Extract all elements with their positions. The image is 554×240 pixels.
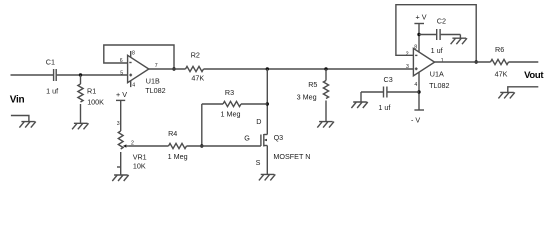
- svg-text:2: 2: [406, 51, 409, 57]
- svg-text:C3: C3: [384, 75, 393, 84]
- node junction R3 right end: [266, 102, 269, 105]
- svg-text:U1B: U1B: [146, 77, 160, 86]
- pin 4 stub U1B: [131, 81, 136, 89]
- node junction C2 tap: [417, 33, 420, 36]
- svg-text:Vout: Vout: [524, 70, 544, 81]
- wire U1A feedback loop: [396, 5, 476, 62]
- node junction R5 branch: [324, 67, 327, 70]
- node junction R1 tap: [79, 73, 82, 76]
- transistor Q3 MOSFET N: [244, 117, 310, 167]
- pin 5 label: [120, 70, 123, 76]
- svg-text:8: 8: [414, 44, 417, 50]
- svg-text:MOSFET N: MOSFET N: [273, 152, 310, 161]
- svg-text:3 Meg: 3 Meg: [297, 92, 317, 101]
- port Vout: [524, 70, 544, 81]
- wire R3 left vertical: [201, 104, 203, 146]
- port Vin: [10, 95, 25, 106]
- svg-text:R2: R2: [191, 51, 200, 60]
- resistor R1 100K: [78, 84, 104, 107]
- power -V U1A: [411, 72, 424, 124]
- svg-text:VR1: VR1: [133, 152, 147, 161]
- svg-text:Q3: Q3: [274, 133, 284, 142]
- svg-text:C1: C1: [46, 57, 55, 66]
- pin 6 label: [120, 58, 123, 64]
- capacitor C2: [419, 17, 460, 55]
- resistor R5 3 Meg: [297, 69, 329, 122]
- svg-text:S: S: [256, 158, 261, 167]
- wire input left segment: [11, 74, 54, 76]
- op-amp U1B: [128, 55, 166, 95]
- svg-text:7: 7: [155, 63, 158, 69]
- svg-text:R4: R4: [168, 129, 177, 138]
- wire VR1 wiper to R4: [129, 145, 169, 147]
- svg-text:TL082: TL082: [429, 81, 449, 90]
- node U1A output junction: [475, 60, 478, 63]
- capacitor C1: [46, 57, 58, 95]
- svg-text:R6: R6: [495, 45, 504, 54]
- svg-text:3: 3: [117, 121, 120, 127]
- svg-text:R1: R1: [87, 87, 96, 96]
- potentiometer VR1 10K: [118, 100, 146, 175]
- svg-text:4: 4: [132, 83, 135, 89]
- pin 4 label: [414, 82, 417, 88]
- svg-text:C2: C2: [437, 17, 446, 26]
- ground under VR1: [112, 175, 128, 181]
- svg-text:Vin: Vin: [10, 95, 25, 106]
- wire R6 to Vout: [509, 61, 539, 63]
- svg-text:1: 1: [441, 58, 444, 64]
- ground under R5: [317, 122, 334, 128]
- wire U1A output to R6: [435, 61, 491, 63]
- wire node to Q3 drain: [266, 69, 268, 135]
- wire U1B feedback loop: [104, 45, 174, 69]
- pin 1 label: [441, 58, 444, 64]
- ground at C2: [451, 38, 467, 44]
- svg-text:47K: 47K: [495, 69, 508, 78]
- node junction R4 gate wire: [200, 144, 203, 147]
- svg-text:G: G: [244, 134, 250, 143]
- capacitor C3: [361, 75, 419, 112]
- resistor R6 47K: [491, 45, 509, 78]
- wire R1 top lead: [80, 75, 82, 84]
- svg-text:4: 4: [414, 82, 417, 88]
- svg-text:- V: - V: [411, 115, 420, 124]
- svg-text:1 uf: 1 uf: [378, 103, 390, 112]
- node U1B output junction: [172, 67, 175, 70]
- wire Vout ground reference stub: [508, 87, 539, 93]
- svg-text:D: D: [256, 117, 261, 126]
- node junction drain branch: [266, 67, 269, 70]
- wire R2 to U1A pin3: [204, 68, 414, 70]
- svg-text:+ V: + V: [116, 90, 127, 99]
- op-amp U1A: [413, 48, 449, 90]
- svg-text:1 uf: 1 uf: [46, 86, 58, 95]
- wire ground stub at Vin: [11, 116, 29, 122]
- power +V at VR1: [116, 90, 127, 100]
- ground under R1: [72, 123, 88, 129]
- svg-text:3: 3: [406, 64, 409, 70]
- wire R1 bottom lead: [80, 104, 82, 123]
- pin 3 label: [406, 64, 409, 70]
- svg-text:1 Meg: 1 Meg: [221, 110, 241, 119]
- ground at C3: [351, 102, 367, 108]
- pin 8 label: [414, 44, 417, 50]
- pin 7 label: [155, 63, 158, 69]
- pin 3 label VR1: [117, 121, 120, 127]
- resistor R2 47K: [186, 51, 205, 83]
- ground under Q3: [259, 174, 275, 180]
- svg-text:U1A: U1A: [430, 69, 444, 78]
- svg-text:R5: R5: [308, 80, 317, 89]
- wire Q3 source lead: [266, 146, 268, 175]
- svg-text:8: 8: [132, 51, 135, 57]
- svg-text:5: 5: [120, 70, 123, 76]
- svg-text:R3: R3: [225, 88, 234, 97]
- node junction C3 tap: [417, 90, 420, 93]
- svg-text:1 uf: 1 uf: [431, 46, 443, 55]
- wire C1 to U1B pin5: [57, 74, 128, 76]
- ground at Vin: [19, 122, 35, 128]
- svg-text:+ V: + V: [416, 13, 427, 22]
- svg-text:47K: 47K: [191, 74, 204, 83]
- pin 1 label VR1: [117, 166, 120, 168]
- pin 2 label: [406, 51, 409, 57]
- svg-text:10K: 10K: [133, 162, 146, 171]
- ground at Vout: [498, 92, 514, 98]
- resistor R3 1 Meg: [202, 88, 267, 118]
- pin 2 label VR1: [131, 140, 134, 146]
- power +V U1A: [414, 13, 426, 52]
- wire U1B output to R2: [149, 68, 186, 70]
- resistor R4 1 Meg: [168, 129, 188, 161]
- pin 8 stub U1B: [131, 51, 135, 58]
- wire R4 to Q3 gate: [187, 145, 261, 147]
- svg-text:100K: 100K: [87, 98, 104, 107]
- wire C2 ground drop: [459, 35, 461, 39]
- wire C3 ground drop: [360, 92, 362, 102]
- svg-text:TL082: TL082: [145, 86, 165, 95]
- svg-text:1 Meg: 1 Meg: [168, 152, 188, 161]
